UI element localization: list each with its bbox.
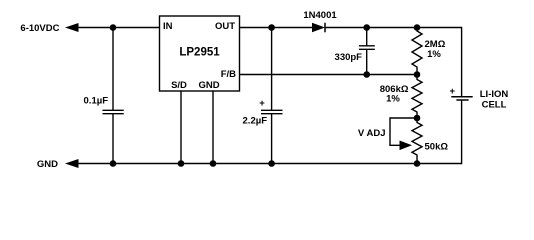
svg-text:6-10VDC: 6-10VDC [20,23,59,34]
svg-text:CELL: CELL [482,100,507,111]
node junction C3 on F/B line [363,71,370,78]
node VIN input arrow 6-10VDC [20,23,78,34]
ground GND arrow [37,159,79,170]
svg-text:V ADJ: V ADJ [358,128,386,139]
resistor R3 potentiometer 50k [412,118,448,164]
wire bottom ground rail [77,163,462,165]
svg-text:50kΩ: 50kΩ [425,142,449,153]
wire potentiometer wiper V ADJ [358,118,417,150]
op-amp U1 LP2951 regulator box [160,16,240,91]
wire battery top lead [461,27,463,96]
node ground junction C1 [110,160,117,167]
node ground junction S/D [178,160,185,167]
svg-text:1%: 1% [386,94,400,105]
node junction R1/R2 on F/B line [414,71,421,78]
resistor R2 806k 1% [380,75,422,119]
svg-text:330pF: 330pF [335,52,363,63]
wire battery bottom lead to ground rail [461,100,463,164]
wire diode cathode to battery corner [325,27,462,29]
capacitor C3 330pF [335,46,375,63]
node junction R2/R3 wiper tap [414,115,421,122]
svg-text:0.1µF: 0.1µF [84,96,109,107]
wire top rail from input arrow to IN pin [77,27,160,29]
svg-text:OUT: OUT [215,21,235,32]
wire C3 down to F/B line [366,49,368,74]
svg-text:2.2µF: 2.2µF [243,116,268,127]
svg-text:S/D: S/D [171,80,187,91]
svg-text:GND: GND [37,159,58,170]
wire S/D pin to ground rail [180,91,182,164]
svg-text:1%: 1% [427,49,441,60]
wire GND pin to ground rail [212,91,214,164]
capacitor C2 2.2uF [243,98,283,127]
svg-text:GND: GND [198,80,219,91]
node ground junction C2 [268,160,275,167]
node input junction [110,24,117,31]
wire from input junction down to C1 [112,28,114,111]
svg-text:IN: IN [163,21,173,32]
node junction top of R1 on top rail [414,24,421,31]
svg-text:F/B: F/B [221,69,236,80]
svg-text:LP2951: LP2951 [179,46,220,58]
svg-text:+: + [259,98,265,109]
wire junction down to C3 [366,28,368,46]
svg-text:1N4001: 1N4001 [303,10,337,21]
node ground junction R3 [414,160,421,167]
node junction above C3 330pF [363,24,370,31]
wire from OUT junction down to C2 (crosses F/B line) [271,28,273,111]
node ground junction GND pin [210,160,217,167]
wire from C1 down to ground rail [112,114,114,164]
wire from C2 down to ground rail [271,114,273,164]
wire F/B line from pin to divider [240,74,418,76]
svg-text:+: + [450,86,456,97]
node OUT junction above C2 [268,24,275,31]
resistor R1 2M 1% [412,28,446,75]
wire OUT pin to diode anode [240,27,313,29]
capacitor C1 0.1uF [84,96,124,114]
svg-text:LI-ION: LI-ION [480,89,509,100]
battery BT1 LI-ION CELL [450,86,509,111]
diode D1 1N4001 [303,10,337,32]
